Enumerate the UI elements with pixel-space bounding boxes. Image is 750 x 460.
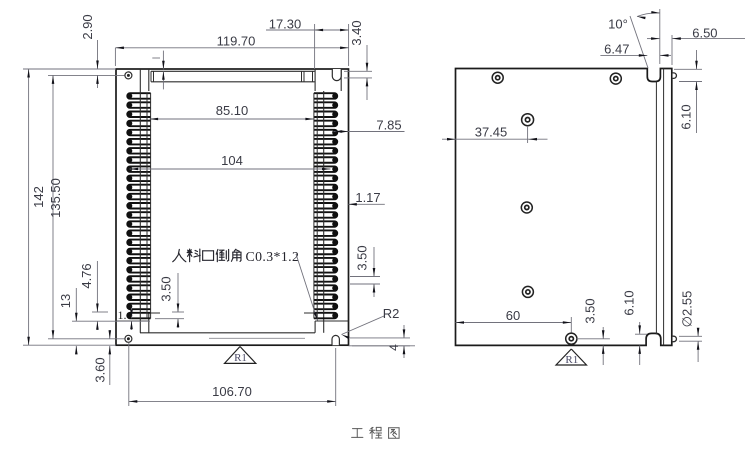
svg-text:17.30: 17.30 [269, 17, 302, 32]
svg-text:3.60: 3.60 [93, 357, 108, 382]
svg-text:6.50: 6.50 [692, 26, 717, 41]
svg-text:3.50: 3.50 [583, 298, 598, 323]
svg-text:1.17: 1.17 [355, 190, 380, 205]
svg-text:3.40: 3.40 [349, 20, 364, 45]
svg-text:37.45: 37.45 [475, 125, 508, 140]
svg-text:13: 13 [58, 294, 73, 308]
svg-text:142: 142 [31, 186, 46, 208]
svg-text:∅2.55: ∅2.55 [680, 291, 695, 328]
svg-text:135.50: 135.50 [48, 178, 63, 218]
svg-text:7.85: 7.85 [376, 118, 401, 133]
svg-text:4: 4 [387, 344, 401, 351]
svg-text:2.90: 2.90 [80, 14, 95, 39]
svg-text:4.76: 4.76 [79, 263, 94, 288]
svg-text:85.10: 85.10 [216, 103, 249, 118]
svg-text:1.: 1. [118, 308, 127, 322]
svg-text:R1: R1 [234, 352, 247, 364]
svg-text:3.50: 3.50 [355, 245, 370, 270]
svg-text:R2: R2 [383, 306, 400, 321]
svg-text:R1: R1 [565, 354, 578, 366]
svg-text:C0.3*1.2: C0.3*1.2 [246, 249, 300, 264]
svg-text:60: 60 [506, 308, 520, 323]
svg-text:104: 104 [221, 153, 243, 168]
svg-text:3.50: 3.50 [159, 276, 174, 301]
svg-text:119.70: 119.70 [217, 34, 256, 49]
svg-text:6.10: 6.10 [679, 104, 694, 129]
svg-text:10°: 10° [608, 17, 628, 32]
svg-text:106.70: 106.70 [212, 384, 252, 399]
svg-text:6.10: 6.10 [622, 290, 637, 315]
svg-text:6.47: 6.47 [604, 42, 629, 57]
